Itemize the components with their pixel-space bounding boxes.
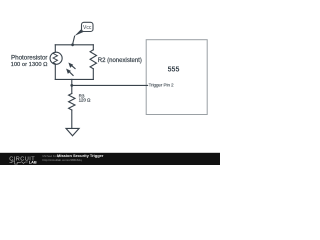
svg-text:LAB: LAB (29, 160, 37, 165)
svg-text:Photoresistor: Photoresistor (11, 54, 47, 61)
svg-text:Trigger Pin 2: Trigger Pin 2 (149, 83, 175, 88)
svg-text:Vcc: Vcc (83, 25, 92, 31)
svg-text:120 Ω: 120 Ω (79, 98, 92, 103)
svg-text:555: 555 (168, 66, 180, 73)
svg-text:R2 (nonexistent): R2 (nonexistent) (98, 58, 142, 64)
svg-text:http://circuitlab.com/c/286b62: http://circuitlab.com/c/286b62q (43, 158, 83, 162)
svg-text:100 or 1300 Ω: 100 or 1300 Ω (11, 62, 49, 68)
